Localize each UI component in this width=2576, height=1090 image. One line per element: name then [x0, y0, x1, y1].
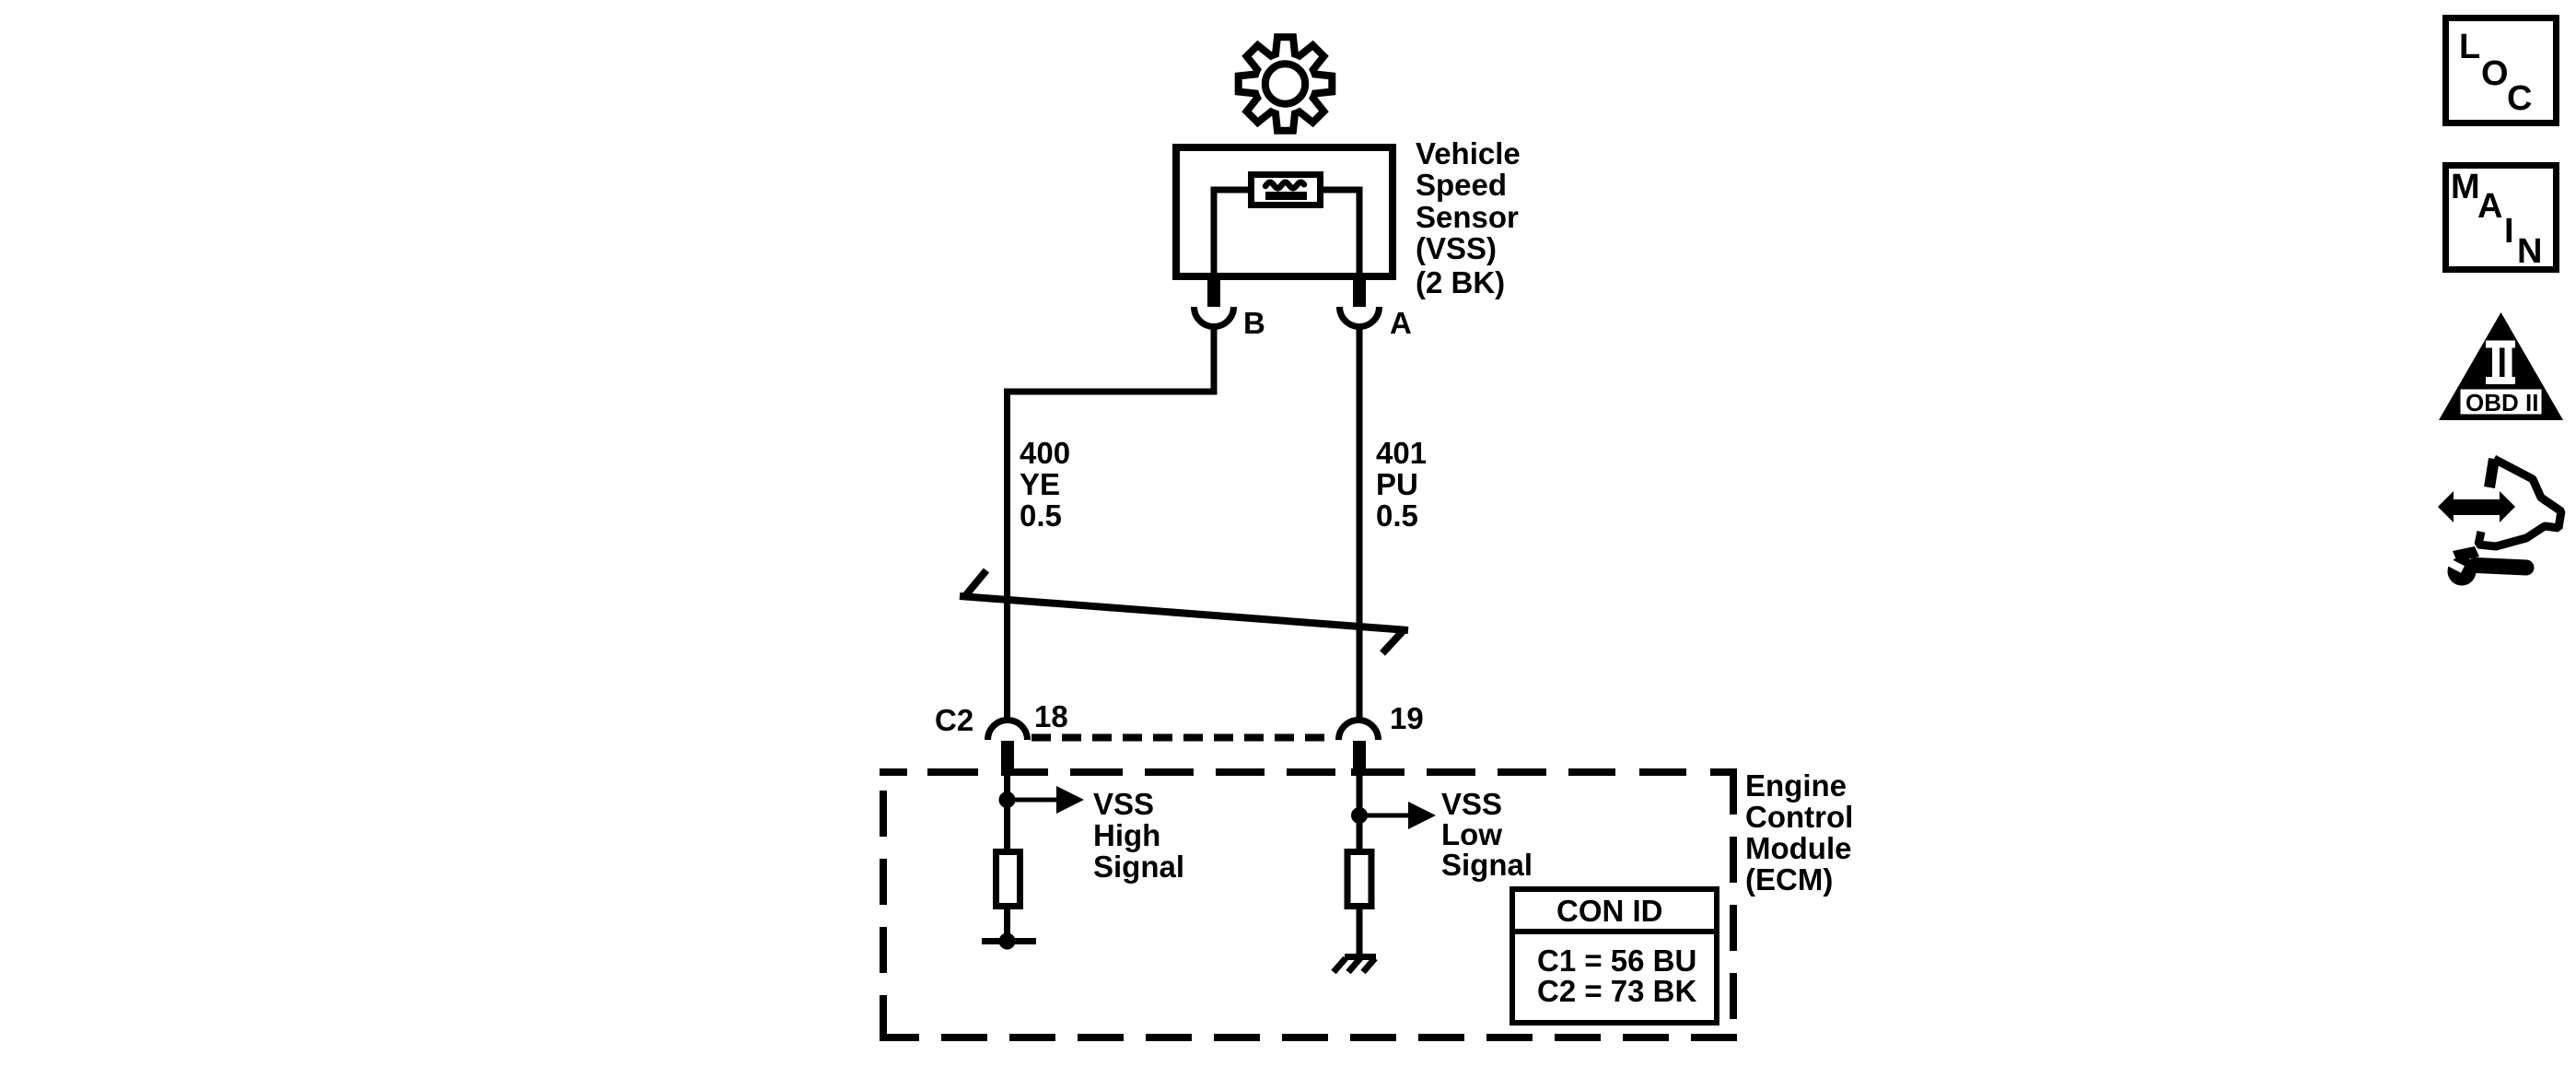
svg-text:18: 18: [1034, 699, 1068, 733]
svg-text:Engine: Engine: [1745, 768, 1847, 803]
wire from sensor to pin B (internal): [1214, 190, 1251, 276]
OBD II pillar bottom bar: [2486, 377, 2515, 384]
svg-text:B: B: [1243, 306, 1265, 340]
wire pin 18 to junction: [1004, 771, 1010, 849]
sensor squiggle: [1265, 182, 1304, 189]
OBD II pillar top bar: [2486, 341, 2515, 348]
svg-text:N: N: [2517, 232, 2542, 271]
svg-text:OBD II: OBD II: [2465, 389, 2538, 416]
service icon: double arrow: [2438, 491, 2515, 522]
svg-text:Signal: Signal: [1441, 848, 1533, 882]
svg-text:M: M: [2451, 168, 2480, 206]
svg-text:Vehicle: Vehicle: [1416, 136, 1521, 170]
wire 401 PU (circuit from A to ECM pin 19): [1357, 324, 1363, 720]
svg-text:CON ID: CON ID: [1556, 894, 1663, 928]
junction node 18: [999, 791, 1016, 808]
svg-text:PU: PU: [1376, 467, 1418, 501]
gear hub circle: [1265, 64, 1305, 103]
service icon: component outline: [2478, 459, 2561, 546]
wire 400 YE (circuit from B to ECM pin 18): [1008, 324, 1215, 720]
wire resistor R2 to chassis ground: [1357, 907, 1363, 954]
wire from sensor to pin A (internal): [1321, 190, 1359, 276]
svg-text:401: 401: [1376, 436, 1427, 470]
CON ID table box: [1512, 889, 1717, 1023]
resistor R2 (VSS low pulldown): [1347, 852, 1371, 907]
svg-text:19: 19: [1390, 701, 1424, 735]
svg-text:A: A: [2477, 187, 2502, 226]
svg-text:Speed: Speed: [1416, 168, 1507, 202]
svg-text:C1 = 56 BU: C1 = 56 BU: [1537, 943, 1696, 978]
connector dome 18 (C2): [988, 721, 1028, 740]
svg-text:Control: Control: [1745, 800, 1853, 834]
VSS component box: [1176, 147, 1393, 276]
harness slash line across wires: [960, 596, 1408, 630]
resistor R1 (VSS high pulldown): [997, 852, 1020, 907]
svg-text:L: L: [2459, 28, 2480, 66]
svg-text:A: A: [1390, 306, 1412, 340]
svg-text:0.5: 0.5: [1376, 498, 1418, 533]
service icon: outline left bar: [2489, 459, 2494, 487]
ECM dashed border bottom: [880, 1034, 1737, 1041]
arrow VSS Low Signal: [1359, 814, 1409, 818]
junction node 19: [1351, 807, 1368, 824]
MAIN reference box: [2446, 166, 2557, 270]
OBD II pillar columns: [2492, 348, 2500, 378]
connector cup B: [1195, 307, 1234, 327]
svg-text:C: C: [2507, 79, 2532, 118]
svg-text:YE: YE: [1020, 467, 1060, 501]
harness slash left barb: [964, 570, 986, 597]
dotted connector line between pins 18 and 19: [1032, 734, 1335, 742]
svg-text:Low: Low: [1441, 817, 1502, 851]
service icon: wrench: [2448, 557, 2477, 586]
svg-text:Sensor: Sensor: [1416, 200, 1519, 234]
CON ID table divider: [1509, 929, 1719, 934]
svg-text:Signal: Signal: [1093, 850, 1184, 884]
svg-text:(ECM): (ECM): [1745, 862, 1833, 897]
wire pin 19 to junction: [1357, 772, 1363, 849]
svg-text:0.5: 0.5: [1020, 498, 1062, 533]
svg-text:VSS: VSS: [1441, 787, 1502, 821]
sensor element U1 outer rect: [1252, 175, 1321, 205]
LOC reference box: [2446, 18, 2557, 123]
pin stub A: [1353, 276, 1366, 307]
svg-text:400: 400: [1020, 436, 1070, 470]
sensor bar: [1265, 192, 1307, 200]
gear icon: [1239, 37, 1333, 131]
OBD II label band: [2459, 388, 2543, 416]
ECM dashed border left: [880, 768, 887, 1041]
svg-text:C2: C2: [935, 703, 973, 737]
svg-text:High: High: [1093, 818, 1160, 852]
svg-text:I: I: [2504, 212, 2514, 251]
connector cup A: [1340, 307, 1380, 327]
harness slash right barb: [1382, 630, 1404, 653]
chassis ground (right): [1345, 954, 1376, 960]
ECM dashed border top: [880, 768, 1737, 776]
ECM dashed border right: [1730, 768, 1737, 1041]
connector dome 19: [1339, 721, 1379, 740]
svg-text:(VSS): (VSS): [1416, 231, 1497, 265]
svg-text:(2 BK): (2 BK): [1416, 265, 1505, 299]
pin stub below connector 18: [1001, 741, 1014, 771]
ground bus splice (left): [982, 938, 1036, 944]
pin stub below connector 19: [1353, 741, 1366, 772]
svg-text:C2 = 73 BK: C2 = 73 BK: [1537, 974, 1696, 1008]
svg-text:O: O: [2481, 54, 2509, 93]
svg-text:VSS: VSS: [1093, 787, 1154, 821]
OBD II triangle icon: [2439, 312, 2563, 420]
pin stub B: [1207, 276, 1220, 307]
arrow VSS High Signal: [1008, 798, 1058, 803]
wire resistor R1 to ground: [1004, 907, 1010, 941]
svg-text:Module: Module: [1745, 831, 1851, 865]
